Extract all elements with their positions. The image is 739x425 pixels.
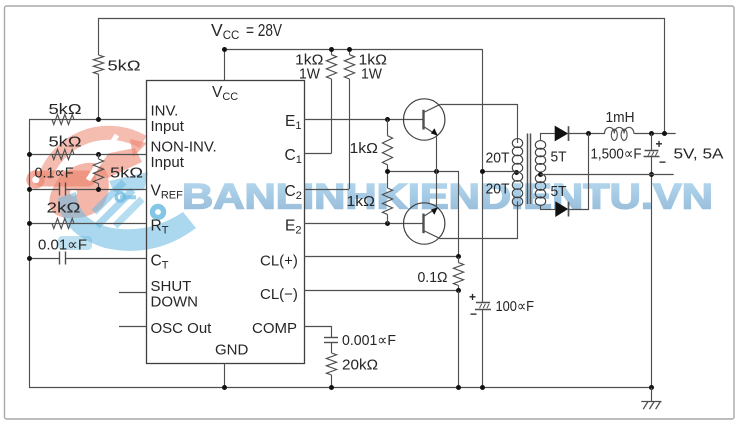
svg-text:20T: 20T bbox=[486, 150, 510, 167]
node noninv mid bbox=[96, 152, 101, 157]
pin label CT bbox=[151, 253, 169, 272]
watermark logo salmon wedge bbox=[95, 148, 142, 178]
node e1 junction bbox=[385, 117, 390, 122]
wire center tap bbox=[483, 171, 514, 173]
svg-text:= 28V: = 28V bbox=[246, 20, 282, 40]
pin label GND bbox=[215, 342, 249, 359]
node comp gnd bbox=[329, 385, 334, 390]
wire E1 pin bbox=[304, 119, 424, 121]
wire CL+ pin bbox=[304, 256, 459, 258]
label R4 5k bbox=[110, 165, 143, 182]
wire Q2 emitter bbox=[436, 172, 438, 208]
transformer T1 primary bbox=[512, 139, 522, 206]
label secondary 5T b bbox=[551, 183, 567, 200]
wire CT right bbox=[66, 258, 146, 260]
wire Vcc rail bbox=[225, 49, 483, 51]
capacitor C5 1500uF bbox=[644, 151, 660, 157]
label output 5V 5A bbox=[674, 146, 724, 163]
svg-text:GND: GND bbox=[215, 342, 249, 359]
wire E2 pin bbox=[304, 223, 424, 225]
wire D2 anode bbox=[540, 209, 555, 211]
svg-text:NON-INV.: NON-INV. bbox=[151, 139, 217, 156]
wire output bbox=[634, 133, 676, 135]
wire emitter bus bbox=[388, 172, 459, 257]
svg-text:5V, 5A: 5V, 5A bbox=[674, 146, 724, 163]
transformer T1 core bbox=[528, 134, 531, 205]
pin label E1 bbox=[285, 113, 301, 132]
node cl- junction bbox=[456, 288, 461, 293]
label R5 2k bbox=[47, 200, 81, 217]
svg-text:0.001∝F: 0.001∝F bbox=[342, 332, 396, 349]
earth symbol bbox=[641, 387, 661, 409]
svg-text:1W: 1W bbox=[299, 66, 321, 83]
node emitter bus q1 bbox=[434, 169, 439, 174]
resistor R8 1k bbox=[382, 120, 392, 172]
capacitor C3 0.001uF bbox=[324, 338, 338, 343]
label C4 plus bbox=[469, 290, 476, 304]
capacitor C2 0.01uF plates bbox=[60, 252, 66, 265]
node center tap rail bbox=[480, 169, 485, 174]
label R2 5k bbox=[49, 101, 82, 118]
wire INV bbox=[29, 119, 146, 121]
svg-text:Input: Input bbox=[151, 154, 185, 171]
node emitter bus left bbox=[385, 169, 390, 174]
label C4 minus bbox=[470, 307, 477, 321]
label C3 0.001uF bbox=[342, 332, 396, 349]
pin label CL- bbox=[260, 286, 298, 303]
wire output return bbox=[540, 174, 674, 176]
wire Q1 emitter bbox=[436, 135, 438, 172]
label primary 20T a bbox=[486, 150, 510, 167]
label C5 plus bbox=[656, 137, 663, 151]
svg-text:+: + bbox=[469, 290, 476, 304]
pin label SHUT DOWN bbox=[151, 278, 199, 311]
label R10 0.1ohm bbox=[418, 269, 448, 286]
pin label COMP bbox=[252, 320, 297, 337]
watermark logo blue crescent bbox=[58, 192, 196, 251]
svg-text:0.1∝F: 0.1∝F bbox=[35, 165, 74, 182]
wire VREF right bbox=[66, 189, 146, 191]
resistor R4 5k divider bbox=[93, 154, 103, 189]
label C4 100uF bbox=[496, 298, 535, 315]
wire CT left bbox=[29, 258, 60, 260]
svg-text:5T: 5T bbox=[551, 149, 567, 166]
diode D1 bbox=[555, 126, 569, 142]
watermark logo blue stripes bbox=[94, 182, 124, 212]
wire shutdown stub bbox=[119, 292, 146, 294]
label Vcc = 28V bbox=[211, 20, 282, 42]
label R1 5k bbox=[108, 58, 141, 75]
svg-text:0.01∝F: 0.01∝F bbox=[38, 237, 87, 254]
pin label CL+ bbox=[260, 253, 298, 270]
svg-text:DOWN: DOWN bbox=[151, 294, 199, 311]
resistor R11 20k bbox=[326, 342, 336, 387]
wire GND stem bbox=[224, 363, 226, 387]
svg-text:OSC Out: OSC Out bbox=[151, 320, 213, 337]
node 100uF gnd bbox=[480, 385, 485, 390]
node gnd stem bbox=[222, 385, 227, 390]
svg-text:INV.: INV. bbox=[151, 103, 179, 120]
wire 100uF to gnd bbox=[482, 309, 484, 387]
node center tap coil bbox=[514, 170, 519, 175]
svg-text:2kΩ: 2kΩ bbox=[47, 200, 81, 217]
wire COMP pin bbox=[304, 327, 332, 338]
pin label C1 bbox=[285, 147, 302, 166]
wire VREF left bbox=[29, 189, 60, 191]
wire D1 cathode bbox=[569, 133, 605, 135]
resistor R9 1k bbox=[382, 172, 392, 224]
node 0.1ohm gnd bbox=[456, 385, 461, 390]
wire RT bbox=[29, 223, 146, 225]
pin label Vcc bbox=[212, 84, 238, 103]
svg-text:5kΩ: 5kΩ bbox=[49, 134, 82, 151]
svg-text:5kΩ: 5kΩ bbox=[110, 165, 143, 182]
pin label RT bbox=[151, 218, 169, 237]
wire Q2 collector bbox=[441, 206, 518, 239]
svg-text:5T: 5T bbox=[551, 183, 567, 200]
wire osc stub bbox=[119, 326, 146, 328]
wire Q1 collector bbox=[441, 105, 518, 140]
wire Vcc drop bbox=[482, 49, 484, 302]
node e2 junction bbox=[385, 221, 390, 226]
pin label C2 bbox=[285, 183, 302, 202]
svg-text:Input: Input bbox=[151, 118, 185, 135]
svg-text:CL(+): CL(+) bbox=[260, 253, 298, 270]
capacitor C1 0.1uF plates bbox=[60, 183, 66, 196]
resistor R7 1k 1W bbox=[344, 49, 354, 189]
inductor L1 1mH bbox=[605, 127, 634, 140]
label R11 20k bbox=[342, 357, 378, 374]
label R3 5k bbox=[49, 134, 82, 151]
resistor R6 1k 1W bbox=[326, 49, 336, 153]
label R6 1k 1W bbox=[295, 52, 324, 83]
svg-text:COMP: COMP bbox=[252, 320, 297, 337]
watermark logo salmon arc bbox=[45, 133, 143, 177]
wire C1 pin bbox=[304, 153, 332, 155]
node vref mid bbox=[96, 187, 101, 192]
resistor R3 5k noninv bbox=[52, 149, 74, 159]
node output cap junction bbox=[649, 131, 654, 136]
wire C2 pin bbox=[304, 189, 349, 191]
wire 0.1ohm to gnd bbox=[458, 291, 460, 388]
watermark logo salmon pad bar bbox=[26, 170, 44, 188]
node rt left bbox=[27, 221, 32, 226]
watermark logo blue wedge bbox=[109, 172, 148, 192]
svg-text:−: − bbox=[659, 155, 666, 169]
wire D1 anode bbox=[540, 133, 555, 135]
wire IC Vcc stem bbox=[224, 49, 226, 80]
node vref left bbox=[27, 187, 32, 192]
svg-text:BANLINHKIENDIENTU.VN: BANLINHKIENDIENTU.VN bbox=[182, 177, 713, 217]
label C5 minus bbox=[659, 155, 666, 169]
svg-text:5kΩ: 5kΩ bbox=[108, 58, 141, 75]
pin label E2 bbox=[285, 218, 301, 237]
wire D2 cathode bbox=[569, 134, 589, 210]
wire ground rail bbox=[29, 387, 652, 389]
node r7 top bbox=[347, 47, 352, 52]
pin label INV Input bbox=[151, 103, 185, 136]
wire NON-INV bbox=[29, 154, 146, 156]
label R9 1k bbox=[347, 193, 376, 210]
svg-text:1,500∝F: 1,500∝F bbox=[591, 146, 642, 163]
wire cap 1500 bottom bbox=[651, 157, 653, 388]
pin label VREF bbox=[151, 183, 184, 202]
label C1 0.1uF bbox=[35, 165, 74, 182]
node noninv left bbox=[27, 152, 32, 157]
resistor R10 0.1ohm bbox=[453, 257, 463, 291]
label R7 1k 1W bbox=[359, 52, 388, 83]
node cl+ junction bbox=[456, 254, 461, 259]
wire left rail bbox=[29, 120, 31, 388]
node cap return junction bbox=[649, 172, 654, 177]
wire cap 1500 top bbox=[651, 134, 653, 151]
resistor R2 5k INV bbox=[52, 114, 74, 124]
svg-text:CL(−): CL(−) bbox=[260, 286, 298, 303]
resistor R5 2k bbox=[52, 218, 74, 228]
label L1 1mH bbox=[606, 109, 635, 126]
svg-text:1W: 1W bbox=[361, 66, 383, 83]
svg-text:20kΩ: 20kΩ bbox=[342, 357, 378, 374]
pin label NON-INV Input bbox=[151, 139, 217, 172]
transistor Q2 bbox=[404, 203, 445, 244]
node secondary tap bbox=[538, 172, 543, 177]
watermark logo pads bbox=[115, 191, 127, 203]
node output feedback junction bbox=[662, 131, 667, 136]
svg-text:1kΩ: 1kΩ bbox=[350, 140, 379, 157]
node r6 top bbox=[329, 47, 334, 52]
svg-text:0.1Ω: 0.1Ω bbox=[418, 269, 448, 286]
label R8 1k bbox=[350, 140, 379, 157]
label secondary 5T a bbox=[551, 149, 567, 166]
pin label OSC Out bbox=[151, 320, 213, 337]
wire feedback top bbox=[98, 19, 665, 134]
diode D2 bbox=[555, 201, 568, 217]
capacitor C4 100uF bbox=[475, 303, 491, 310]
node INV junction bbox=[96, 117, 101, 122]
node Vcc junction bbox=[222, 47, 227, 52]
label C2 0.01uF bbox=[38, 237, 87, 254]
node ground end bbox=[649, 385, 654, 390]
IC U1 SG3524 box bbox=[147, 81, 305, 364]
transistor Q1 bbox=[404, 99, 445, 140]
svg-text:+: + bbox=[656, 137, 663, 151]
svg-text:5kΩ: 5kΩ bbox=[49, 101, 82, 118]
svg-text:100∝F: 100∝F bbox=[496, 298, 535, 315]
svg-text:1mH: 1mH bbox=[606, 109, 635, 126]
svg-text:1kΩ: 1kΩ bbox=[347, 193, 376, 210]
watermark logo salmon blob bbox=[49, 163, 108, 218]
wire CL- pin bbox=[304, 290, 459, 292]
svg-text:20T: 20T bbox=[486, 181, 510, 198]
svg-text:−: − bbox=[470, 307, 477, 321]
svg-text:SHUT: SHUT bbox=[151, 278, 192, 295]
node rectifier junction bbox=[586, 131, 591, 136]
node ct left bbox=[27, 256, 32, 261]
transformer T1 secondary bbox=[535, 134, 545, 210]
label primary 20T b bbox=[486, 181, 510, 198]
resistor R1 5k feedback bbox=[93, 18, 103, 120]
label C5 1500uF bbox=[591, 146, 642, 163]
